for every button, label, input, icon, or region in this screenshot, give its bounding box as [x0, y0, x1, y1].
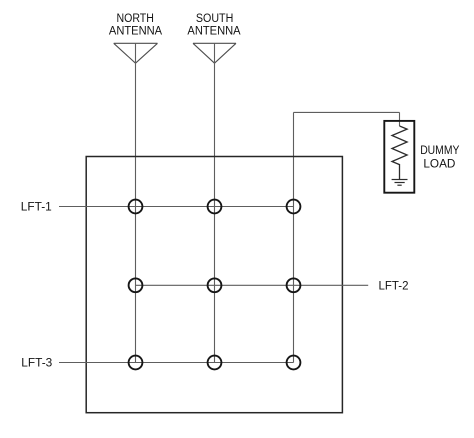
- antenna ANT1 (north): [114, 43, 158, 63]
- wire LFT-2 bus: [136, 284, 369, 286]
- wire dummy load horizontal run: [294, 111, 400, 113]
- svg-text:ANTENNA: ANTENNA: [109, 24, 163, 38]
- wire LFT-3 bus: [59, 362, 294, 364]
- crosspoint circle row1-col3: [287, 200, 301, 214]
- svg-text:ANTENNA: ANTENNA: [187, 24, 241, 38]
- label DUMMY LOAD: [420, 143, 459, 171]
- wire LFT-1 bus: [59, 206, 294, 208]
- ground: [392, 180, 408, 186]
- dummy load enclosure: [384, 121, 414, 193]
- resistor R1 (dummy load): [392, 126, 407, 179]
- wire dummy load drop to resistor: [399, 112, 401, 126]
- wire south antenna feed (column 2): [214, 43, 216, 362]
- svg-text:LFT-3: LFT-3: [21, 355, 52, 369]
- crosspoint circle row1-col1: [129, 200, 143, 214]
- svg-text:LOAD: LOAD: [423, 157, 455, 171]
- crosspoint circle row1-col2: [208, 200, 222, 214]
- label SOUTH ANTENNA: [187, 11, 241, 37]
- crosspoint circle row3-col2: [208, 356, 222, 370]
- crosspoint circle row2-col3: [287, 278, 301, 292]
- svg-text:LFT-1: LFT-1: [21, 200, 52, 214]
- svg-text:DUMMY: DUMMY: [420, 143, 459, 157]
- switch matrix enclosure: [86, 157, 342, 413]
- crosspoint circle row2-col1: [129, 278, 143, 292]
- antenna ANT2 (south): [193, 43, 236, 63]
- crosspoint circle row2-col2: [208, 278, 222, 292]
- crosspoint circle row3-col1: [129, 356, 143, 370]
- crosspoint circle row3-col3: [287, 356, 301, 370]
- wire column 3 (dummy load to matrix): [293, 112, 295, 362]
- wire north antenna feed (column 1): [135, 43, 137, 362]
- label NORTH ANTENNA: [109, 11, 163, 37]
- svg-text:LFT-2: LFT-2: [379, 278, 409, 292]
